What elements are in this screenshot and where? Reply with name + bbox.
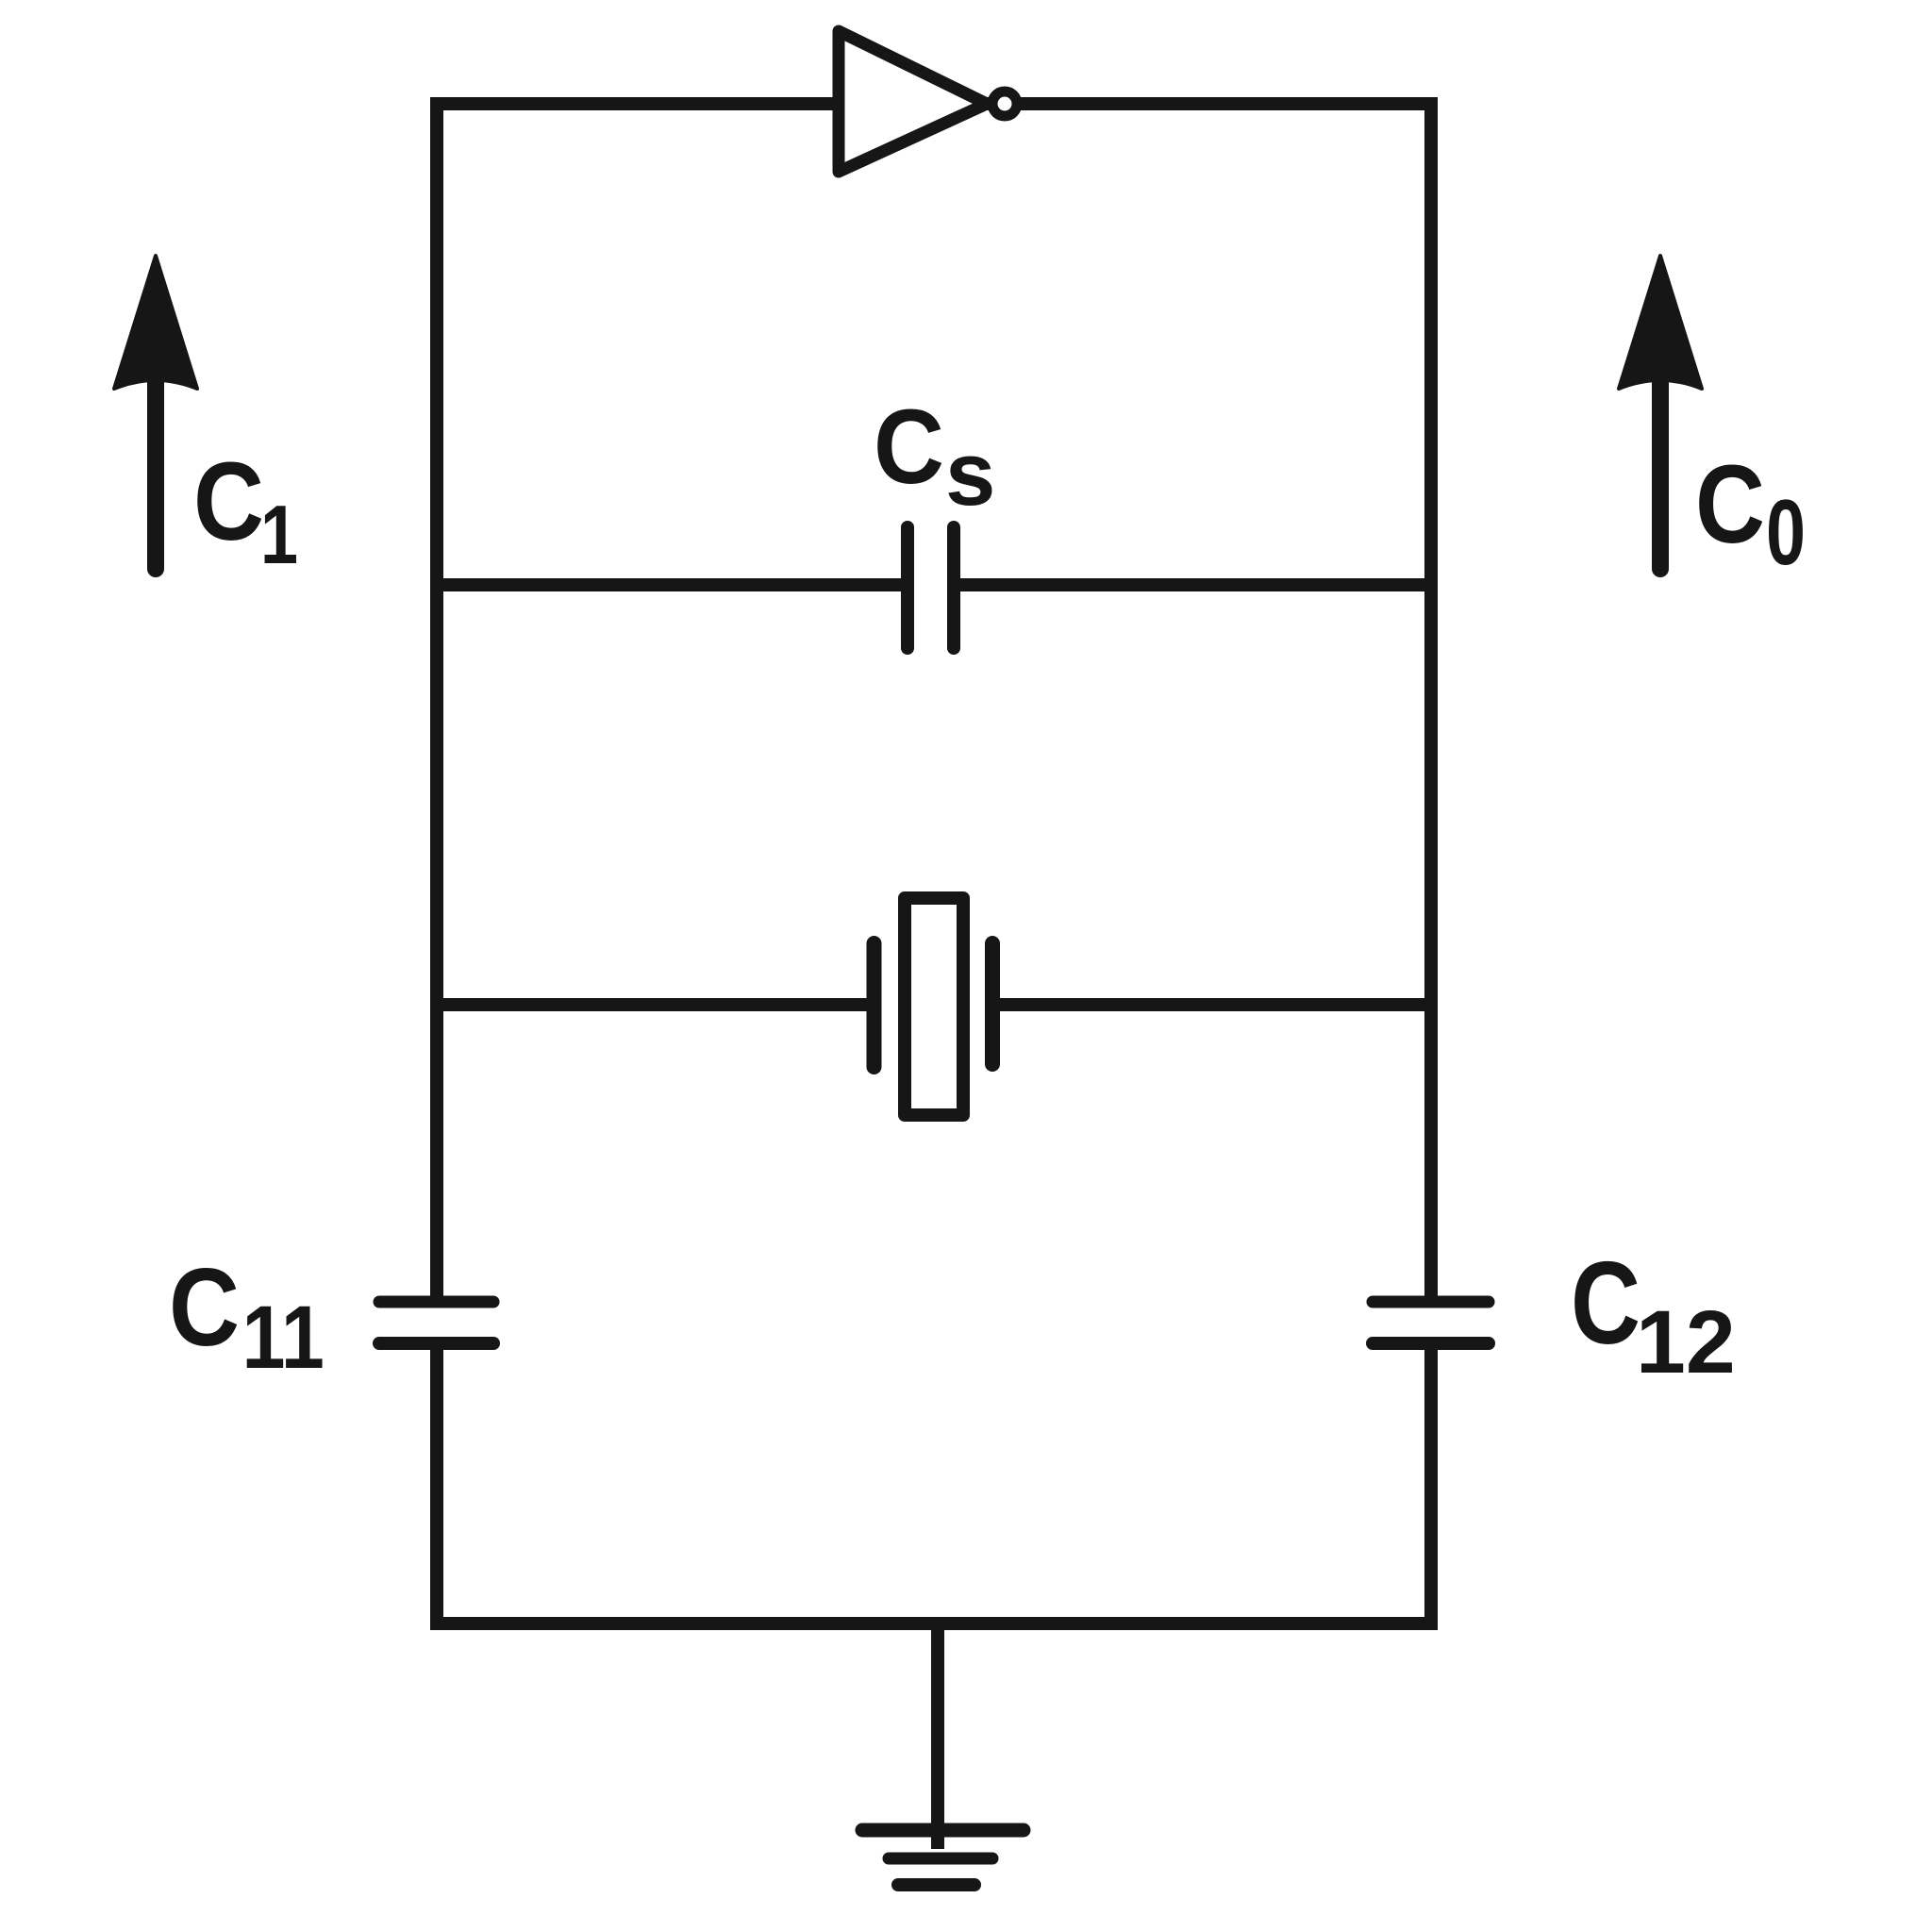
svg-text:11: 11 xyxy=(242,1287,325,1388)
crystal X1 xyxy=(874,898,993,1115)
svg-text:12: 12 xyxy=(1636,1292,1736,1392)
capacitor C12 xyxy=(1373,1302,1489,1343)
wire bottom loop: left rail (lower), bottom wire, right rail (lower) xyxy=(437,1343,1431,1624)
svg-text:C: C xyxy=(874,388,944,506)
svg-text:C: C xyxy=(193,440,264,564)
wire ground stem xyxy=(931,1624,944,1849)
inverter U1 xyxy=(839,31,1017,172)
capacitor C11 xyxy=(379,1302,493,1343)
arrow C1 xyxy=(114,256,197,569)
wire top loop: left rail (upper), top wire, right rail (upper) xyxy=(437,104,1431,1302)
svg-text:1: 1 xyxy=(260,488,298,581)
wire Cs branch left xyxy=(431,578,908,591)
svg-text:C: C xyxy=(1695,442,1765,567)
wire crystal branch right xyxy=(992,998,1438,1011)
svg-text:C: C xyxy=(169,1245,240,1369)
svg-text:0: 0 xyxy=(1766,480,1806,584)
capacitor Cs xyxy=(908,527,954,648)
svg-text:C: C xyxy=(1571,1239,1641,1369)
wire crystal branch left xyxy=(431,998,874,1011)
arrow C0 xyxy=(1619,256,1702,569)
ground xyxy=(862,1830,1024,1885)
svg-text:s: s xyxy=(945,424,995,525)
wire Cs branch right xyxy=(954,578,1438,591)
